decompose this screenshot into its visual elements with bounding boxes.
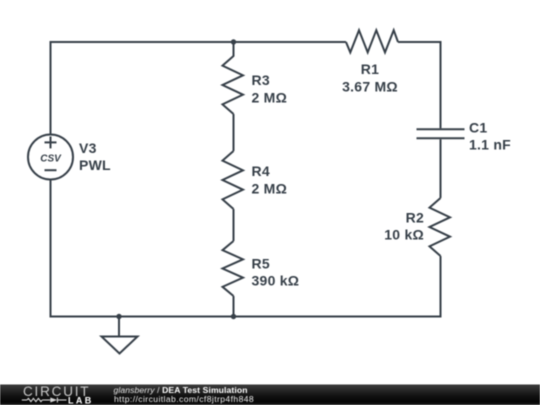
svg-text:390 kΩ: 390 kΩ	[252, 273, 300, 289]
wire right column upper	[440, 41, 442, 128]
svg-text:R1: R1	[361, 61, 379, 77]
wire bottom rail	[51, 316, 441, 318]
resistor R1	[346, 30, 398, 52]
footer title line: glansberry / DEA Test Simulation	[114, 385, 248, 395]
wire middle column segment 1	[233, 42, 235, 57]
label R4 2 MΩ	[252, 163, 288, 197]
footer url line	[114, 394, 254, 404]
svg-text:R5: R5	[252, 256, 270, 272]
capacitor C1	[417, 129, 465, 138]
logo schematic squiggle (resistor + diode)	[22, 398, 67, 403]
label V3 PWL	[79, 140, 111, 173]
wire left column upper	[50, 41, 52, 135]
logo LAB text	[68, 395, 94, 405]
junction dot bottom middle	[231, 314, 236, 319]
junction dot ground	[116, 314, 121, 319]
svg-text:PWL: PWL	[79, 157, 111, 173]
svg-text:V3: V3	[79, 140, 97, 156]
label C1 1.1 nF	[469, 120, 511, 153]
wire middle column segment 2	[233, 114, 235, 151]
svg-text:R3: R3	[252, 72, 270, 88]
logo CIRCUIT text	[23, 384, 90, 399]
svg-text:R4: R4	[252, 163, 270, 179]
label R2 10 kΩ	[384, 210, 424, 243]
wire middle column segment 3	[233, 209, 235, 241]
svg-text:LAB: LAB	[68, 395, 94, 405]
junction dot top middle	[231, 39, 236, 44]
wire top rail right part	[398, 41, 441, 43]
resistor R5	[223, 241, 244, 296]
wire right column lower	[440, 256, 442, 318]
wire right column middle	[440, 139, 442, 198]
label R3 2 MΩ	[252, 72, 288, 106]
voltage source V3	[28, 135, 73, 180]
ground	[102, 317, 138, 354]
footer bar	[0, 385, 540, 405]
svg-text:3.67 MΩ: 3.67 MΩ	[342, 79, 398, 95]
svg-text:R2: R2	[406, 210, 424, 226]
resistor R3	[223, 56, 244, 114]
label R5 390 kΩ	[252, 256, 300, 289]
wire middle column segment 4	[233, 296, 235, 317]
resistor R2	[430, 198, 451, 256]
wire top rail left part	[51, 41, 347, 43]
svg-text:CSV: CSV	[40, 154, 62, 165]
svg-text:10 kΩ: 10 kΩ	[384, 227, 424, 243]
svg-text:C1: C1	[469, 120, 487, 136]
label R1 3.67 MΩ	[342, 61, 398, 95]
svg-text:1.1 nF: 1.1 nF	[469, 137, 511, 153]
resistor R4	[223, 151, 244, 209]
svg-text:http://circuitlab.com/cf8jtrp4: http://circuitlab.com/cf8jtrp4fh848	[114, 394, 254, 404]
svg-text:2 MΩ: 2 MΩ	[252, 90, 288, 106]
svg-text:2 MΩ: 2 MΩ	[252, 181, 288, 197]
wire left column lower	[50, 180, 52, 318]
